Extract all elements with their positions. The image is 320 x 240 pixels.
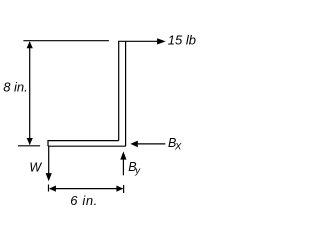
dimension 6 in. right extension tick [123, 185, 125, 193]
dimension 6 in. line [50, 188, 123, 190]
bracket bottom member left end cap [47, 140, 49, 146]
bracket bottom member top edge [48, 140, 119, 142]
dimension 8 in. top extension line [23, 40, 109, 42]
force W arrow line [48, 146, 50, 174]
bracket vertical member right edge [125, 41, 127, 146]
dimension 8 in. vertical line [29, 42, 31, 145]
force 15 lb arrow line [118, 40, 158, 42]
svg-text:15 lb: 15 lb [168, 33, 196, 48]
force 15 lb arrowhead [157, 38, 166, 44]
svg-text:X: X [174, 141, 182, 152]
force By arrow line [122, 160, 124, 176]
dimension 8 in. bottom arrowhead [27, 138, 33, 145]
force Bx arrow line [137, 143, 165, 145]
force Bx arrowhead [130, 141, 137, 148]
force W arrowhead [46, 173, 52, 181]
dimension 8 in. bottom tick [18, 145, 40, 147]
bracket bottom member bottom edge [48, 145, 126, 147]
bracket vertical member left edge [118, 41, 120, 140]
svg-text:y: y [134, 166, 141, 177]
svg-text:W: W [29, 161, 42, 175]
force By arrowhead [120, 151, 126, 159]
dimension 6 in. left arrowhead [49, 186, 56, 192]
dimension 8 in. top arrowhead [27, 41, 33, 48]
svg-text:8 in.: 8 in. [3, 80, 28, 95]
svg-text:6 in.: 6 in. [70, 193, 98, 208]
dimension 6 in. right arrowhead [116, 186, 123, 192]
dimension 6 in. left extension tick [48, 185, 50, 192]
